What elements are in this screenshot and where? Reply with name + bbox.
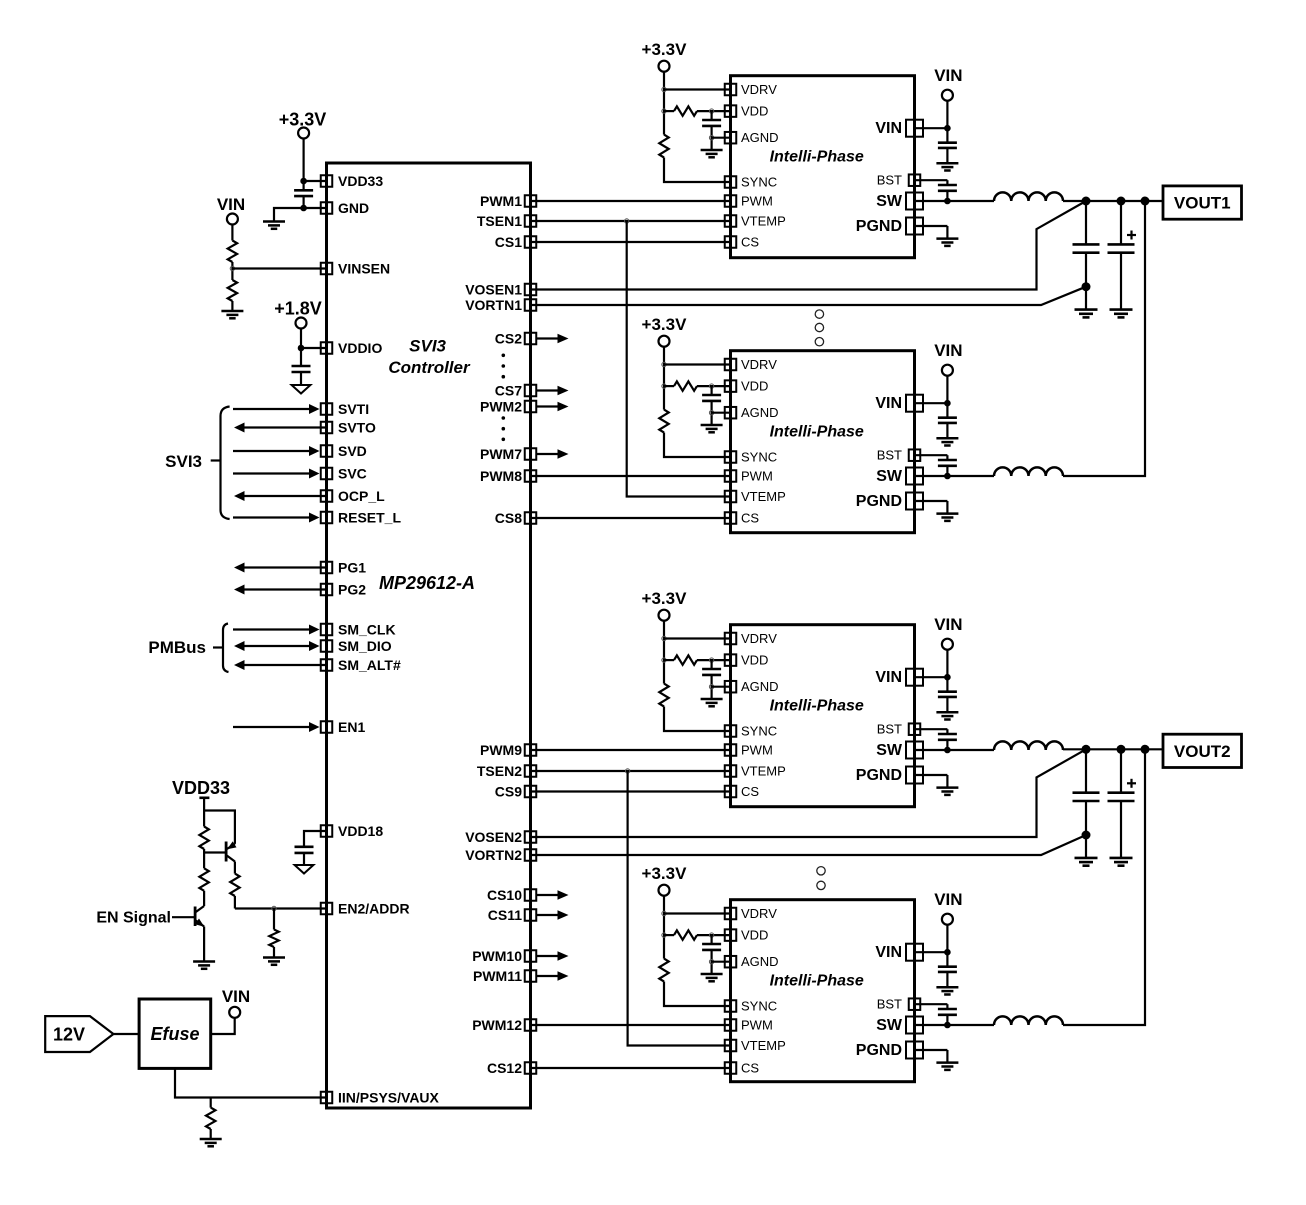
pin CS8: [495, 510, 536, 526]
pin SYNC phase 4: [725, 999, 777, 1014]
pin PWM phase 2: [725, 469, 773, 484]
capacitor VOUT2 bulk polarized: [1108, 749, 1137, 858]
pin VIN phase 4: [875, 944, 923, 962]
svg-text:AGND: AGND: [741, 954, 779, 969]
ground AGND phase 2: [701, 425, 723, 432]
svg-text:PMBus: PMBus: [148, 638, 206, 657]
wire +3.3V rail phase 3: [663, 621, 665, 684]
svg-text:SW: SW: [876, 742, 903, 759]
svg-text:CS: CS: [741, 511, 759, 526]
svg-text:VDRV: VDRV: [741, 82, 777, 97]
wire CS1 to phase1 CS: [531, 241, 731, 243]
arrow CS7 output: [536, 386, 569, 395]
wire VORTN1 to VOUT1 gnd node: [531, 287, 1087, 305]
arrow CS10 output: [536, 890, 569, 899]
svg-text:BST: BST: [877, 173, 902, 188]
power rail VDD33: [172, 778, 230, 798]
power +3.3V phase 1: [642, 40, 688, 71]
resistor R EN2 pulldown: [269, 909, 278, 958]
node VDRV junction phase 4: [662, 911, 666, 915]
arrow PWM2 output: [536, 402, 569, 411]
arrow PWM7 output: [536, 449, 569, 458]
wire to VDD33 pin: [304, 180, 327, 182]
capacitor VIN phase 3: [938, 677, 957, 712]
wire to GND pin: [304, 207, 327, 209]
resistor R VDD phase 4: [664, 930, 731, 939]
svg-text:PWM8: PWM8: [480, 468, 522, 484]
pin SYNC phase 1: [725, 175, 777, 190]
power VIN phase 2: [934, 341, 962, 376]
svg-text:VTEMP: VTEMP: [741, 1038, 786, 1053]
svg-text:+3.3V: +3.3V: [642, 40, 688, 59]
svg-text:SM_CLK: SM_CLK: [338, 622, 396, 638]
ground VOUT2 bulk cap: [1110, 858, 1133, 866]
pin VIN phase 3: [875, 669, 923, 687]
svg-text:EN Signal: EN Signal: [96, 910, 171, 927]
resistor R SYNC phase 1: [659, 135, 668, 158]
svg-text:SM_DIO: SM_DIO: [338, 638, 392, 654]
power +1.8V VDDIO: [274, 299, 322, 329]
pin VDRV phase 4: [725, 906, 777, 921]
connector 12V input: [45, 1016, 113, 1052]
node VOUT1 a: [1082, 197, 1091, 206]
arrow EN1 input: [233, 722, 320, 732]
wire EN2/ADDR line: [235, 907, 327, 909]
svg-text:CS11: CS11: [488, 907, 522, 923]
svg-text:SW: SW: [876, 1017, 903, 1034]
svg-text:SW: SW: [876, 468, 903, 485]
wire to Q1 collector: [203, 891, 205, 906]
wire Q2 resistor to EN2 line: [234, 896, 236, 909]
ground VIN divider: [221, 311, 243, 318]
node VINSEN junction: [230, 266, 234, 270]
pin VIN phase 2: [875, 395, 923, 413]
label SVI3: [165, 452, 202, 471]
ground VOUT1 bulk cap: [1110, 310, 1133, 318]
svg-text:VIN: VIN: [934, 890, 962, 909]
ground GND: [263, 222, 285, 229]
svg-text:+3.3V: +3.3V: [642, 315, 688, 334]
bracket SVI3 bus: [211, 407, 230, 520]
wire AGND phase 4: [712, 961, 731, 963]
capacitor VIN phase 4: [938, 952, 957, 987]
ground PGND phase 2: [936, 514, 958, 521]
resistor R bias lower: [199, 868, 208, 891]
svg-text:SVI3: SVI3: [165, 452, 202, 471]
bracket PMBus: [213, 624, 229, 673]
pin VDDIO: [321, 340, 383, 356]
pin SM_ALT#: [321, 657, 401, 673]
ground VIN cap phase 4: [936, 987, 958, 994]
svg-text:TSEN2: TSEN2: [477, 763, 522, 779]
svg-text:VTEMP: VTEMP: [741, 489, 786, 504]
label MP29612-A: [379, 573, 475, 593]
node VDRV junction phase 3: [662, 636, 666, 640]
pin CS2: [495, 331, 536, 347]
pin CS1: [495, 234, 536, 250]
svg-text:CS7: CS7: [495, 383, 522, 399]
label PMBus: [148, 638, 206, 657]
controller U1 MP29612-A: [327, 163, 531, 1108]
wire AGND phase 2: [712, 412, 731, 414]
wire PGND phase 2: [915, 501, 948, 514]
ground EN2 pulldown: [263, 958, 285, 965]
pin VDD33: [321, 173, 384, 189]
node VIN phase 2: [944, 400, 951, 407]
wire CS9 to phase3 CS: [531, 790, 731, 792]
pin AGND phase 4: [725, 954, 779, 969]
svg-text:VIN: VIN: [934, 615, 962, 634]
wire +3.3V rail phase 2: [663, 347, 665, 410]
node VOUT2 a: [1082, 745, 1091, 754]
pin SW phase 1: [876, 193, 923, 211]
svg-text:PG2: PG2: [338, 582, 366, 598]
arrow SM_CLK input: [233, 625, 320, 635]
pin TSEN2: [477, 763, 536, 779]
ground VIN cap phase 1: [936, 163, 958, 170]
pin PWM2: [480, 399, 536, 415]
wire divider mid: [231, 262, 233, 280]
pin VIN phase 1: [875, 120, 923, 138]
wire BST phase 2: [915, 455, 948, 460]
node EN2 junction: [272, 906, 276, 910]
pin CS11: [488, 907, 537, 923]
pin SVTO: [321, 420, 376, 436]
wire SYNC phase 1: [664, 158, 731, 183]
arrow PG2 output: [234, 585, 327, 595]
node cap junction phase 3: [709, 658, 713, 662]
node VDRV junction phase 2: [662, 362, 666, 366]
wire SW phase 3: [915, 749, 995, 751]
svg-text:SVD: SVD: [338, 443, 367, 459]
pin CS7: [495, 383, 536, 399]
arrow PWM11 output: [536, 971, 569, 980]
capacitor VOUT2 ceramic: [1073, 749, 1100, 858]
ground AGND phase 1: [701, 150, 723, 157]
pin PWM12: [472, 1017, 536, 1033]
signal ground VDD18: [295, 865, 314, 874]
svg-text:BST: BST: [877, 448, 902, 463]
node TSEN2 tee: [625, 769, 629, 773]
pin BST phase 3: [877, 722, 921, 737]
ground IIN resistor: [200, 1139, 222, 1146]
resistor divider top: [228, 241, 237, 263]
wire VOSEN1 to VOUT1 node: [531, 201, 1087, 290]
wire PGND phase 4: [915, 1050, 948, 1063]
Intelli-Phase U5 box: [731, 900, 915, 1082]
pin PGND phase 3: [856, 767, 923, 785]
svg-text:PWM: PWM: [741, 1018, 773, 1033]
pin PWM7: [480, 446, 536, 462]
pin VTEMP phase 2: [725, 489, 786, 504]
svg-text:BST: BST: [877, 997, 902, 1012]
pin CS phase 4: [725, 1061, 760, 1076]
pin VDD phase 3: [725, 653, 769, 668]
ellipsis phases 3-4: [817, 867, 825, 890]
pin SYNC phase 2: [725, 450, 777, 465]
wire PGND phase 1: [915, 226, 948, 239]
svg-text:+3.3V: +3.3V: [642, 589, 688, 608]
node SW BST junction phase 2: [944, 473, 951, 480]
arrow SM_ALT# output: [234, 660, 327, 670]
pin BST phase 4: [877, 997, 921, 1012]
ground VIN cap phase 3: [936, 712, 958, 719]
node VIN phase 1: [944, 125, 951, 132]
power VIN input: [217, 195, 245, 225]
capacitor VDD phase 4: [702, 935, 721, 974]
wire phase interconnect VOUT1: [1063, 201, 1145, 476]
capacitor VDD33 bypass: [294, 181, 313, 208]
pin SW phase 3: [876, 742, 923, 760]
svg-text:VDD: VDD: [741, 379, 768, 394]
wire VDRV phase 1: [664, 88, 731, 90]
wire base node to Q2: [204, 851, 226, 853]
node TSEN1 tee: [625, 219, 629, 223]
wire SW phase 1: [915, 200, 995, 202]
capacitor VDDIO bypass: [292, 348, 311, 385]
svg-text:Intelli-Phase: Intelli-Phase: [770, 973, 864, 990]
wire PGND phase 3: [915, 775, 948, 788]
svg-text:SYNC: SYNC: [741, 999, 777, 1014]
svg-text:CS10: CS10: [487, 887, 522, 903]
svg-text:PWM11: PWM11: [473, 968, 522, 984]
svg-text:SYNC: SYNC: [741, 724, 777, 739]
svg-text:VIN: VIN: [217, 195, 245, 214]
svg-text:VOUT2: VOUT2: [1174, 742, 1231, 761]
svg-text:SYNC: SYNC: [741, 175, 777, 190]
Intelli-Phase U3 box: [731, 351, 915, 533]
pin RESET_L: [321, 510, 402, 526]
pin EN2/ADDR: [321, 901, 410, 917]
svg-text:VDD: VDD: [741, 653, 768, 668]
label SVI3 Controller: [388, 337, 471, 378]
wire VDRV phase 3: [664, 637, 731, 639]
wire PWM1 to phase1 PWM: [531, 200, 731, 202]
ellipsis phases 1-2: [815, 310, 823, 346]
ellipsis CS2-CS7: [502, 354, 506, 379]
node VDD junction phase 3: [662, 658, 666, 662]
pin AGND phase 2: [725, 405, 779, 420]
svg-text:CS8: CS8: [495, 510, 522, 526]
pin SW phase 2: [876, 468, 923, 486]
wire VOSEN2 to VOUT2 node: [531, 749, 1087, 837]
node GND: [300, 205, 307, 212]
svg-text:VDD18: VDD18: [338, 823, 383, 839]
svg-text:Intelli-Phase: Intelli-Phase: [770, 424, 864, 441]
inductor L2: [994, 467, 1063, 476]
power VIN phase 4: [934, 890, 962, 925]
pin PGND phase 1: [856, 218, 923, 236]
resistor R bias upper: [199, 827, 208, 850]
wire 12V to Efuse: [113, 1033, 139, 1035]
svg-text:VDDIO: VDDIO: [338, 340, 382, 356]
svg-text:Intelli-Phase: Intelli-Phase: [770, 698, 864, 715]
svg-text:IIN/PSYS/VAUX: IIN/PSYS/VAUX: [338, 1090, 440, 1106]
pin CS9: [495, 784, 536, 800]
resistor R SYNC phase 3: [659, 684, 668, 707]
wire VIN phase 3: [915, 650, 948, 678]
arrow CS2 output: [536, 334, 569, 343]
pin SVC: [321, 466, 367, 482]
svg-text:CS1: CS1: [495, 234, 522, 250]
node VDD junction phase 1: [662, 109, 666, 113]
inductor L1: [994, 192, 1063, 201]
pin SW phase 4: [876, 1017, 923, 1035]
wire SYNC phase 3: [664, 707, 731, 732]
svg-text:BST: BST: [877, 722, 902, 737]
pin VDD phase 1: [725, 104, 769, 119]
svg-text:SW: SW: [876, 193, 903, 210]
svg-text:AGND: AGND: [741, 130, 779, 145]
wire +1.8V to VDDIO: [300, 329, 302, 349]
wire to VDDIO pin: [301, 347, 327, 349]
svg-text:PGND: PGND: [856, 493, 902, 510]
svg-text:VIN: VIN: [875, 669, 902, 686]
svg-text:GND: GND: [338, 200, 369, 216]
pin BST phase 1: [877, 173, 921, 188]
svg-text:VIN: VIN: [934, 341, 962, 360]
arrow OCP_L output: [234, 491, 327, 501]
arrow SVTI input: [233, 404, 320, 414]
transistor Q1 NPN: [195, 906, 204, 927]
wire VDD18 pin: [304, 831, 327, 847]
capacitor BST phase 1: [938, 185, 957, 201]
pin IIN/PSYS/VAUX: [321, 1090, 440, 1106]
terminal VOUT2: [1163, 734, 1242, 767]
svg-text:Intelli-Phase: Intelli-Phase: [770, 149, 864, 166]
pin VDD18: [321, 823, 384, 839]
node VDDIO: [298, 345, 305, 352]
svg-text:PWM1: PWM1: [480, 193, 522, 209]
pin CS10: [487, 887, 536, 903]
pin VTEMP phase 3: [725, 764, 786, 779]
wire +3.3V rail phase 1: [663, 72, 665, 135]
arrow PWM10 output: [536, 951, 569, 960]
wire GND to ground: [274, 208, 304, 222]
svg-text:VIN: VIN: [934, 66, 962, 85]
svg-text:12V: 12V: [53, 1025, 85, 1045]
wire VDRV phase 4: [664, 912, 731, 914]
label EN Signal: [96, 910, 171, 927]
svg-text:VDD: VDD: [741, 928, 768, 943]
resistor R SYNC phase 2: [659, 410, 668, 433]
arrow RESET_L input: [233, 513, 320, 523]
svg-text:AGND: AGND: [741, 405, 779, 420]
wire EN Signal to Q1 base: [172, 916, 195, 918]
node VOUT2 c: [1141, 745, 1150, 754]
power VIN phase 3: [934, 615, 962, 650]
pin PWM phase 1: [725, 194, 773, 209]
svg-text:PWM12: PWM12: [472, 1017, 522, 1033]
pin PWM1: [480, 193, 536, 209]
svg-text:VDD: VDD: [741, 104, 768, 119]
svg-text:VIN: VIN: [222, 987, 250, 1006]
node VOUT1 gnd sense: [1082, 282, 1091, 291]
svg-text:Controller: Controller: [388, 358, 471, 377]
wire SW phase 4: [915, 1024, 995, 1026]
wire phase interconnect VOUT2: [1063, 749, 1145, 1025]
wire SYNC phase 4: [664, 982, 731, 1007]
ellipsis PWM2-PWM7: [502, 416, 506, 441]
svg-text:PWM: PWM: [741, 469, 773, 484]
resistor R Q2 collector: [230, 874, 239, 896]
pin PWM phase 4: [725, 1018, 773, 1033]
capacitor VDD18: [295, 847, 314, 865]
svg-text:PGND: PGND: [856, 1042, 902, 1059]
node VOUT2 b: [1117, 745, 1126, 754]
pin PGND phase 2: [856, 493, 923, 511]
svg-text:CS: CS: [741, 1061, 759, 1076]
inductor L4: [994, 1016, 1063, 1025]
pin VINSEN: [321, 261, 390, 277]
node SW BST junction phase 4: [944, 1022, 951, 1029]
wire BST phase 4: [915, 1004, 948, 1009]
ground AGND phase 4: [701, 974, 723, 981]
ground VOUT1 ceramic cap: [1075, 310, 1098, 318]
transistor Q2 PNP: [226, 841, 236, 861]
capacitor VDD phase 1: [702, 111, 721, 150]
resistor R VDD phase 3: [664, 655, 731, 664]
svg-text:SVI3: SVI3: [409, 337, 446, 356]
pin VOSEN2: [465, 829, 536, 845]
svg-text:RESET_L: RESET_L: [338, 510, 401, 526]
ground AGND phase 3: [701, 699, 723, 706]
wire to VINSEN pin: [232, 267, 326, 269]
node SW BST junction phase 1: [944, 198, 951, 205]
pin PWM11: [473, 968, 536, 984]
svg-text:PWM10: PWM10: [472, 948, 522, 964]
capacitor BST phase 3: [938, 734, 957, 750]
svg-text:SYNC: SYNC: [741, 450, 777, 465]
node AGND junction phase 1: [709, 136, 713, 140]
svg-text:Efuse: Efuse: [150, 1024, 199, 1044]
resistor R VDD phase 1: [664, 106, 731, 115]
pin OCP_L: [321, 488, 385, 504]
wire AGND phase 3: [712, 686, 731, 688]
wire BST phase 3: [915, 729, 948, 734]
svg-text:SM_ALT#: SM_ALT#: [338, 657, 401, 673]
svg-text:TSEN1: TSEN1: [477, 213, 522, 229]
svg-text:VINSEN: VINSEN: [338, 261, 390, 277]
inductor L3: [994, 741, 1063, 750]
svg-text:SVTO: SVTO: [338, 420, 376, 436]
ground PGND phase 4: [936, 1063, 958, 1070]
pin SVD: [321, 443, 367, 459]
svg-text:VDRV: VDRV: [741, 631, 777, 646]
pin VORTN1: [465, 297, 536, 313]
wire Q1 emitter to ground: [203, 927, 205, 962]
wire SW phase 2: [915, 475, 995, 477]
arrow CS11 output: [536, 910, 569, 919]
svg-text:VDRV: VDRV: [741, 906, 777, 921]
ground Q1: [193, 962, 215, 969]
capacitor VIN phase 1: [938, 128, 957, 163]
wire Q2 collector: [234, 862, 236, 874]
svg-text:CS: CS: [741, 235, 759, 250]
wire VIN phase 1: [915, 101, 948, 129]
svg-text:SVC: SVC: [338, 466, 367, 482]
node AGND junction phase 2: [709, 411, 713, 415]
pin PWM10: [472, 948, 536, 964]
block Efuse: [139, 999, 211, 1068]
pin CS12: [487, 1060, 536, 1076]
pin VOSEN1: [465, 282, 536, 298]
wire Efuse to VIN: [211, 1018, 235, 1034]
wire divider to ground: [231, 301, 233, 311]
svg-text:VOUT1: VOUT1: [1174, 194, 1231, 213]
pin AGND phase 3: [725, 679, 779, 694]
svg-text:PGND: PGND: [856, 218, 902, 235]
